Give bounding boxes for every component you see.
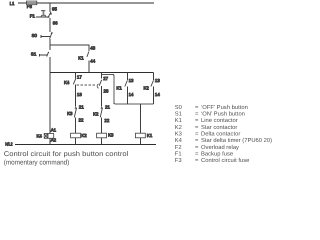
svg-text:K2: K2 xyxy=(175,124,182,131)
svg-text:F1: F1 xyxy=(30,14,36,19)
svg-text:(momentary command): (momentary command) xyxy=(4,160,70,167)
svg-text:28: 28 xyxy=(104,88,109,93)
contact K1 43/44 (self holding) xyxy=(78,46,95,64)
coil K1 xyxy=(135,133,152,138)
svg-text:Backup fuse: Backup fuse xyxy=(201,150,233,157)
wire K3 22 to coil K2 xyxy=(75,118,77,134)
wire hook from node to cross line (K1 coil feed) xyxy=(102,74,154,104)
contact K2 13/14 xyxy=(144,73,161,98)
svg-text:S0: S0 xyxy=(175,104,182,111)
svg-text:18: 18 xyxy=(77,92,82,97)
svg-text:F3: F3 xyxy=(27,4,33,9)
svg-text:K1: K1 xyxy=(175,118,182,124)
svg-text:=: = xyxy=(195,132,199,138)
timer contact K4 17/18 xyxy=(64,73,82,98)
svg-text:A2: A2 xyxy=(51,138,57,143)
svg-text:K1: K1 xyxy=(116,86,122,91)
svg-text:‘ON’ Push button: ‘ON’ Push button xyxy=(201,111,245,118)
wire F1 to S0 xyxy=(49,18,51,32)
svg-text:43: 43 xyxy=(90,46,95,51)
svg-text:17: 17 xyxy=(77,75,82,80)
wire K2 22 to coil K3 xyxy=(101,118,103,134)
coil K2 xyxy=(71,133,88,138)
svg-text:Control circuit for push butto: Control circuit for push button control xyxy=(4,151,129,158)
svg-text:=: = xyxy=(195,125,199,131)
wire S1 down through node to coil K4 xyxy=(49,57,51,133)
svg-text:A1: A1 xyxy=(51,128,57,133)
svg-text:K4: K4 xyxy=(37,133,43,138)
contact K1 13/14 xyxy=(116,73,134,98)
svg-text:=: = xyxy=(195,145,199,151)
svg-text:=: = xyxy=(195,151,199,157)
svg-text:K4: K4 xyxy=(64,80,70,85)
wire K1 14 to cross line xyxy=(126,87,128,104)
caption xyxy=(4,151,129,166)
svg-text:Line contactor: Line contactor xyxy=(201,117,238,124)
wire self-hold branch xyxy=(50,45,89,51)
svg-text:K1: K1 xyxy=(78,56,84,61)
svg-text:=: = xyxy=(195,118,199,124)
wire 28 to K2 contact xyxy=(101,86,103,107)
svg-text:K1: K1 xyxy=(147,133,153,138)
svg-text:F1: F1 xyxy=(175,151,182,157)
wire cross line to coil K1 xyxy=(139,104,141,133)
wire 18 to K3 contact xyxy=(75,84,77,106)
svg-text:F3: F3 xyxy=(175,157,182,164)
svg-text:=: = xyxy=(195,158,199,164)
wire coil K4 to rail xyxy=(49,138,51,144)
svg-text:‘OFF’ Push button: ‘OFF’ Push button xyxy=(201,104,248,111)
legend xyxy=(175,104,272,164)
svg-text:S1: S1 xyxy=(175,111,182,118)
push button S0 (break contact) xyxy=(32,32,53,39)
svg-text:N/L2: N/L2 xyxy=(5,142,13,147)
svg-text:27: 27 xyxy=(103,76,108,81)
svg-text:Star contactor: Star contactor xyxy=(201,124,237,131)
svg-text:=: = xyxy=(195,112,199,118)
svg-text:Delta contactor: Delta contactor xyxy=(201,131,240,138)
svg-text:=: = xyxy=(195,105,199,111)
fuse F3 xyxy=(27,1,37,9)
wire L1 rail to F1 contact xyxy=(49,3,51,12)
svg-text:K2: K2 xyxy=(93,111,99,116)
svg-text:Overload relay: Overload relay xyxy=(201,144,239,151)
svg-text:22: 22 xyxy=(104,118,109,123)
svg-text:13: 13 xyxy=(155,78,160,83)
svg-text:Star delta timer (7PU60 20): Star delta timer (7PU60 20) xyxy=(201,137,272,144)
svg-text:K4: K4 xyxy=(175,138,183,144)
svg-text:K2: K2 xyxy=(81,133,87,138)
wire K2 14 to cross line xyxy=(153,87,155,104)
svg-text:F2: F2 xyxy=(175,144,182,151)
rail L1 xyxy=(10,1,154,6)
svg-text:K3: K3 xyxy=(108,133,114,138)
push button S1 (make contact) xyxy=(31,52,49,57)
svg-text:21: 21 xyxy=(79,105,84,110)
overload relay contact F1 (95-96) xyxy=(36,10,52,18)
wire coil K2 to rail xyxy=(75,138,77,145)
coil K3 xyxy=(97,133,114,138)
svg-text:L1: L1 xyxy=(10,1,15,6)
svg-text:13: 13 xyxy=(129,78,134,83)
wire contact K1 44 to node line xyxy=(88,61,90,73)
mechanical link dashes xyxy=(77,84,99,88)
timer contact K4 27/28 xyxy=(99,73,109,94)
svg-text:22: 22 xyxy=(79,117,84,122)
svg-text:S0: S0 xyxy=(32,33,38,38)
wire coil K3 to rail xyxy=(101,138,103,145)
wire S0 to S1 with self-hold tee xyxy=(49,39,51,50)
svg-text:Control circuit fuse: Control circuit fuse xyxy=(201,157,249,164)
svg-text:21: 21 xyxy=(105,105,110,110)
svg-text:14: 14 xyxy=(129,92,134,97)
svg-text:96: 96 xyxy=(53,20,58,25)
svg-text:95: 95 xyxy=(52,6,57,11)
svg-text:S1: S1 xyxy=(31,52,37,57)
node line xyxy=(50,72,154,74)
rail N/L2 xyxy=(5,142,156,147)
contact K2 21/22 xyxy=(93,105,110,123)
svg-text:=: = xyxy=(195,138,199,144)
svg-text:44: 44 xyxy=(90,59,95,64)
coil K4 (star delta timer) xyxy=(37,128,57,143)
svg-text:K2: K2 xyxy=(144,86,150,91)
svg-text:14: 14 xyxy=(155,92,160,97)
svg-text:K3: K3 xyxy=(67,111,73,116)
wire coil K1 to rail xyxy=(139,138,141,145)
svg-text:K3: K3 xyxy=(175,131,182,138)
contact K3 21/22 xyxy=(67,105,84,123)
